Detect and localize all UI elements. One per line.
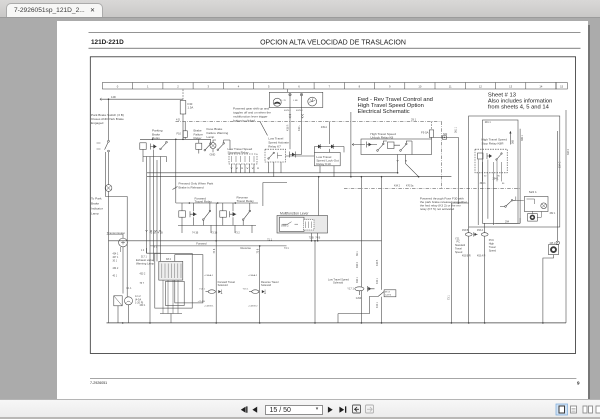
wire lamp down to ground bus bbox=[108, 191, 110, 323]
wire lockout box down bbox=[320, 166, 334, 177]
wire left bus down to switch bbox=[108, 99, 110, 140]
relay row2 bus bbox=[176, 202, 258, 204]
svg-text:30: 30 bbox=[484, 176, 487, 178]
wire step to pressure switch bbox=[338, 297, 375, 323]
svg-text:73 B: 73 B bbox=[309, 237, 314, 240]
svg-text:13: 13 bbox=[509, 85, 512, 89]
svg-text:relay (K7 5) not activated: relay (K7 5) not activated bbox=[420, 207, 455, 211]
svg-text:9: 9 bbox=[389, 85, 391, 89]
svg-text:440 1: 440 1 bbox=[376, 277, 379, 284]
svg-text:434 2: 434 2 bbox=[113, 268, 119, 270]
svg-text:Travel Relay: Travel Relay bbox=[195, 199, 213, 203]
svg-text:29 1: 29 1 bbox=[411, 117, 417, 121]
alternator circle bbox=[119, 238, 128, 247]
svg-text:F10: F10 bbox=[177, 132, 182, 136]
lever connector pins bbox=[306, 222, 312, 229]
svg-text:1.5A: 1.5A bbox=[188, 106, 194, 110]
svg-text:43 1B 74 1B: 43 1B 74 1B bbox=[150, 232, 164, 235]
wire x262.9 elbow bbox=[263, 183, 287, 207]
wire transmission label stub bbox=[122, 234, 124, 294]
svg-text:4 D: 4 D bbox=[176, 117, 180, 121]
svg-text:SW8 2: SW8 2 bbox=[281, 224, 289, 227]
svg-text:Relay K7: Relay K7 bbox=[268, 144, 281, 148]
svg-text:452 1: 452 1 bbox=[550, 213, 556, 215]
relay K10 parking brake: coil box bbox=[140, 143, 146, 150]
forward bus bbox=[109, 240, 382, 242]
wire F30 down to relay bus bbox=[182, 114, 184, 139]
relay K11 low-travel-stopping dashed box bbox=[229, 154, 257, 164]
connector chevrons on K11 pins bbox=[231, 168, 259, 169]
svg-text:445 1: 445 1 bbox=[550, 243, 556, 245]
svg-text:from sheets 4, 5 and 14: from sheets 4, 5 and 14 bbox=[488, 105, 550, 111]
svg-text:294 1: 294 1 bbox=[493, 178, 500, 181]
relay bus parking-brake row bbox=[140, 138, 187, 140]
svg-text:K1 1: K1 1 bbox=[127, 287, 133, 290]
svg-text:443 1: 443 1 bbox=[376, 301, 379, 308]
connector block grey bbox=[159, 261, 183, 280]
svg-text:10: 10 bbox=[418, 85, 421, 89]
solenoid Y21 oval bbox=[465, 233, 472, 236]
svg-text:1 4: 1 4 bbox=[141, 250, 145, 252]
relay K7 internals bbox=[268, 152, 282, 159]
coil K8 box bbox=[388, 142, 395, 149]
svg-text:6: 6 bbox=[298, 85, 300, 89]
svg-text:Stop Relay K8R: Stop Relay K8R bbox=[482, 141, 505, 145]
svg-text:453 A R: 453 A R bbox=[477, 255, 486, 258]
svg-text:294: 294 bbox=[505, 221, 510, 224]
svg-text:15: 15 bbox=[560, 85, 563, 89]
wire vertical x175.8 to lower relay bus bbox=[175, 139, 177, 203]
svg-text:Relay: Relay bbox=[194, 136, 202, 140]
svg-text:M 13: M 13 bbox=[385, 292, 391, 294]
relay K10 lockout box bbox=[314, 152, 340, 165]
contact right of lamp bbox=[213, 140, 230, 151]
wire x259.7 down to ground bbox=[259, 246, 261, 323]
S22 box with motor bbox=[524, 197, 548, 212]
bus A y172.8 bbox=[147, 172, 398, 174]
svg-text:S22 1: S22 1 bbox=[529, 190, 537, 194]
svg-text:OPCION ALTA VELOCIDAD DE TRASL: OPCION ALTA VELOCIDAD DE TRASLACION bbox=[260, 40, 406, 47]
connector circle X2-10 bbox=[556, 241, 559, 244]
lamp brake failure warning bbox=[210, 143, 216, 149]
motor symbol in S22 box bbox=[541, 203, 547, 209]
wire lever outputs 73B 74B bbox=[312, 233, 318, 241]
relay K8R pins bbox=[478, 160, 501, 173]
brake failure relay contact bbox=[196, 139, 202, 153]
svg-text:+C14 B: +C14 B bbox=[197, 301, 205, 303]
svg-text:334 C: 334 C bbox=[558, 161, 561, 168]
wire x381.5 down bbox=[381, 177, 383, 323]
alarm symbol bbox=[550, 246, 557, 253]
wire starter to ground bbox=[118, 287, 129, 323]
switch S park-brake bbox=[97, 140, 110, 152]
wire second left branch with elbow bbox=[106, 152, 128, 287]
fuse F30 dashed feed from ruler bbox=[182, 90, 184, 100]
svg-text:433 B: 433 B bbox=[376, 259, 379, 266]
diode V17 bbox=[367, 142, 373, 148]
wire K7 pins down bbox=[269, 162, 282, 177]
svg-text:L 4B: L 4B bbox=[293, 100, 298, 102]
wire Y21 feeds bbox=[469, 223, 485, 323]
svg-text:517 1: 517 1 bbox=[141, 257, 147, 259]
wire pointer gear-shift note bbox=[260, 122, 268, 136]
relay K11 pins down bbox=[232, 164, 255, 173]
wire x315 down to ground bbox=[314, 241, 316, 323]
wires under relay row2 bbox=[178, 217, 256, 225]
wire alarm to ground bbox=[543, 255, 554, 323]
wire x451.4 corner to ground bbox=[451, 203, 468, 323]
dash-dot boundary lower horizontal bbox=[344, 187, 520, 189]
wire switch to lamp bbox=[108, 152, 110, 185]
relay K7 activate dashed box bbox=[265, 149, 286, 162]
svg-text:365: 365 bbox=[512, 139, 515, 144]
wire inner box bottom link bbox=[495, 218, 520, 223]
svg-text:2: 2 bbox=[177, 85, 179, 89]
wire x458.4 down bbox=[457, 137, 459, 203]
wire gauge output left bbox=[289, 96, 291, 150]
solenoid reverse travel bbox=[249, 290, 266, 294]
switch S22 bbox=[500, 200, 516, 208]
wire buzzer link bbox=[532, 211, 541, 217]
svg-text:396 1: 396 1 bbox=[521, 134, 524, 141]
solenoid forward travel bbox=[206, 290, 223, 294]
wire columns into block bbox=[147, 248, 161, 261]
svg-text:Lamp: Lamp bbox=[91, 212, 99, 216]
wire lever feed from bus B bbox=[318, 177, 320, 216]
svg-text:407B 4: 407B 4 bbox=[284, 110, 291, 112]
lamp park-brake-indicator bbox=[105, 185, 112, 192]
svg-text:5: 5 bbox=[268, 85, 270, 89]
svg-text:Solenoid: Solenoid bbox=[333, 281, 344, 285]
svg-text:1: 1 bbox=[147, 85, 149, 89]
svg-text:121D-221D: 121D-221D bbox=[91, 39, 124, 46]
wire pin collector bbox=[160, 314, 182, 323]
connector block pins bbox=[162, 264, 181, 279]
relay K5 reverse: coil box bbox=[220, 211, 227, 217]
svg-text:Engaged: Engaged bbox=[91, 121, 104, 125]
svg-text:430 1: 430 1 bbox=[140, 305, 146, 307]
pressure switch SP2 bbox=[375, 290, 396, 297]
wire diagonal K8 to bus B bbox=[406, 164, 419, 177]
svg-text:73 1B: 73 1B bbox=[211, 232, 218, 235]
switch SW2 inside lever bbox=[283, 222, 299, 225]
wires relay outputs down to label row bbox=[182, 225, 252, 233]
wire F10 feed bbox=[184, 122, 186, 140]
wire lockout relay feeds bbox=[286, 126, 345, 156]
wires relay row2 verticals bbox=[182, 203, 250, 211]
contact K12 bbox=[187, 139, 211, 151]
svg-text:+C4A A 1: +C4A A 1 bbox=[204, 274, 214, 277]
wire cluster stub to ruler bbox=[287, 89, 289, 92]
svg-text:74 B: 74 B bbox=[315, 237, 320, 240]
svg-text:S62: S62 bbox=[443, 133, 448, 136]
wire Y17 connections bbox=[359, 177, 374, 323]
schematic frame bbox=[90, 57, 575, 354]
svg-text:F9 5A: F9 5A bbox=[421, 131, 429, 135]
svg-text:Y15 1: Y15 1 bbox=[243, 288, 249, 290]
svg-text:+C4A A 2: +C4A A 2 bbox=[248, 274, 258, 277]
svg-text:30 1: 30 1 bbox=[113, 261, 118, 263]
wire K8 pins to buses bbox=[398, 155, 406, 173]
nested ecu box overlap bbox=[175, 255, 203, 303]
wire 14D top-left horizontal bbox=[101, 98, 184, 100]
svg-text:Unlock Relay K8: Unlock Relay K8 bbox=[370, 136, 393, 140]
connector chevrons on columns bbox=[146, 230, 162, 232]
svg-text:3: 3 bbox=[207, 85, 209, 89]
svg-text:86: 86 bbox=[502, 183, 505, 185]
svg-text:460 2: 460 2 bbox=[356, 261, 359, 268]
wires K8R below box bbox=[478, 173, 493, 225]
svg-text:334 2: 334 2 bbox=[567, 148, 570, 155]
svg-text:432 L: 432 L bbox=[298, 124, 301, 131]
rotated wire labels bbox=[213, 124, 570, 308]
contact K8b bbox=[400, 143, 407, 151]
svg-text:Transmission: Transmission bbox=[107, 231, 126, 235]
svg-text:460 1: 460 1 bbox=[356, 276, 359, 283]
svg-text:470 5a: 470 5a bbox=[406, 184, 414, 187]
wire lamp to GND bbox=[212, 149, 214, 153]
wire F9 output to X2 bbox=[432, 137, 459, 139]
multifunction lever inner box bbox=[280, 217, 305, 231]
diode V16 bbox=[318, 144, 324, 149]
diode V13 bbox=[290, 152, 296, 158]
buzzer symbol bbox=[530, 215, 535, 220]
wire x216.2 down to ground bbox=[215, 203, 217, 323]
svg-text:453 B R: 453 B R bbox=[462, 255, 471, 258]
svg-text:36 1: 36 1 bbox=[356, 251, 359, 256]
wire gauge output right bbox=[301, 96, 303, 152]
wire x520.1 bbox=[519, 129, 521, 224]
svg-text:9: 9 bbox=[577, 381, 580, 386]
wire x350.9 vertical bbox=[350, 112, 352, 177]
svg-text:453 A: 453 A bbox=[477, 229, 484, 232]
svg-text:Brake is Released: Brake is Released bbox=[179, 185, 204, 189]
diode V10 bbox=[151, 144, 157, 150]
lever connector dashed box bbox=[304, 220, 315, 231]
svg-text:Solenoid: Solenoid bbox=[218, 283, 229, 287]
ground bus bbox=[107, 322, 567, 324]
contact K3 bbox=[203, 210, 211, 220]
fuse F10 body bbox=[183, 131, 187, 138]
svg-text:Forward: Forward bbox=[196, 242, 207, 246]
relay K8R stop dashed box bbox=[475, 149, 507, 173]
svg-text:Lamp: Lamp bbox=[207, 135, 215, 139]
svg-text:Travel Relay: Travel Relay bbox=[237, 199, 255, 203]
svg-text:Warning Lamp: Warning Lamp bbox=[136, 262, 155, 266]
svg-text:+C4B B 2: +C4B B 2 bbox=[248, 306, 258, 308]
svg-text:75 7: 75 7 bbox=[140, 283, 145, 285]
svg-text:Relay K10: Relay K10 bbox=[316, 162, 331, 166]
svg-text:Multifunction Lever: Multifunction Lever bbox=[280, 211, 309, 215]
contact K5 bbox=[242, 210, 250, 220]
right subsystem box bbox=[469, 116, 560, 227]
svg-text:Reverse: Reverse bbox=[241, 246, 252, 250]
wire x329.5 from dashline bbox=[329, 122, 331, 127]
svg-text:74 1: 74 1 bbox=[284, 247, 289, 250]
svg-text:Electrical Schematic: Electrical Schematic bbox=[358, 109, 410, 115]
fuse F9 body bbox=[429, 130, 433, 138]
svg-text:14: 14 bbox=[539, 85, 542, 89]
relay K8 unlock box bbox=[361, 139, 432, 155]
svg-text:7: 7 bbox=[328, 85, 330, 89]
dash-dot boundary horizontal 4D bbox=[176, 121, 442, 123]
svg-text:Relay: Relay bbox=[152, 136, 160, 140]
wire far-right bus x566 bbox=[565, 110, 567, 323]
svg-text:Indicator: Indicator bbox=[91, 207, 103, 211]
wire pointer pressed-only note bbox=[173, 187, 178, 190]
svg-text:0: 0 bbox=[117, 85, 119, 89]
starter motor circle bbox=[125, 297, 133, 305]
svg-text:8: 8 bbox=[359, 85, 361, 89]
svg-text:407 1: 407 1 bbox=[113, 257, 119, 259]
svg-text:GND: GND bbox=[210, 153, 216, 157]
svg-text:433 2: 433 2 bbox=[140, 273, 146, 275]
svg-text:Fwd - Rev Travel Control and: Fwd - Rev Travel Control and bbox=[358, 97, 433, 103]
alarm device box bbox=[549, 245, 559, 255]
relay K3 forward: coil box bbox=[179, 211, 186, 217]
wire arrow x510.4 bbox=[509, 131, 511, 145]
S22 box internals bbox=[516, 197, 535, 205]
svg-text:73 1: 73 1 bbox=[448, 295, 451, 300]
svg-text:73 8: 73 8 bbox=[257, 248, 260, 253]
svg-text:434 2: 434 2 bbox=[394, 184, 401, 187]
svg-text:74 1B: 74 1B bbox=[192, 232, 199, 235]
relay K11 internals bbox=[232, 156, 255, 162]
diode V25 bbox=[331, 144, 337, 149]
svg-text:T1 1: T1 1 bbox=[267, 238, 272, 241]
svg-text:K8 2: K8 2 bbox=[166, 258, 172, 261]
fuse F9 dashed feed bbox=[431, 122, 433, 130]
svg-text:L 70: L 70 bbox=[282, 100, 287, 102]
svg-text:Speed: Speed bbox=[455, 251, 463, 254]
svg-text:73 2: 73 2 bbox=[235, 232, 240, 235]
svg-text:439 A: 439 A bbox=[321, 126, 328, 129]
wire x123 alternator labels column bbox=[120, 247, 122, 252]
K8R pin stubs bbox=[483, 173, 502, 182]
svg-text:C4 F4: C4 F4 bbox=[385, 294, 392, 296]
wire V13 join bbox=[296, 152, 302, 155]
svg-text:To Park: To Park bbox=[91, 197, 102, 201]
svg-text:74 8: 74 8 bbox=[213, 248, 216, 253]
svg-text:Y14 1: Y14 1 bbox=[199, 288, 205, 290]
connector X2 bbox=[442, 136, 446, 139]
svg-text:434 1: 434 1 bbox=[113, 254, 119, 256]
wire column cluster middle bbox=[147, 157, 161, 323]
svg-text:GND: GND bbox=[356, 296, 362, 300]
svg-text:361 1: 361 1 bbox=[455, 126, 458, 133]
dash-dot boundary vertical bbox=[441, 122, 443, 189]
svg-text:Y17 1: Y17 1 bbox=[347, 288, 354, 291]
svg-text:Solenoid: Solenoid bbox=[261, 283, 272, 287]
svg-text:14D: 14D bbox=[111, 95, 116, 99]
svg-text:4: 4 bbox=[238, 85, 240, 89]
contact K10 bbox=[160, 141, 168, 149]
ground bus junctions bbox=[122, 322, 544, 324]
connector block pin stubs bbox=[163, 280, 178, 313]
svg-text:394 1: 394 1 bbox=[480, 182, 487, 185]
svg-text:+C4B B 1: +C4B B 1 bbox=[204, 306, 214, 308]
svg-text:11: 11 bbox=[449, 85, 452, 89]
wires under parking relay bbox=[143, 149, 167, 162]
svg-text:291 1: 291 1 bbox=[485, 121, 492, 124]
svg-text:High Travel Speed Option: High Travel Speed Option bbox=[358, 103, 424, 109]
node junction at x108.5 bbox=[108, 98, 110, 100]
contact K8a bbox=[377, 143, 384, 151]
svg-text:Speed: Speed bbox=[489, 249, 497, 252]
relay K8R internals bbox=[478, 153, 503, 160]
nested ecu box outer bbox=[155, 253, 192, 308]
starter relay box bbox=[114, 296, 122, 306]
lower ecu box bbox=[166, 281, 185, 305]
multifunction lever outer box bbox=[277, 216, 328, 234]
instrument cluster box bbox=[269, 92, 323, 107]
diode V20 bbox=[474, 232, 478, 236]
bus B y176.7 bbox=[147, 176, 451, 178]
svg-text:button is clicked: button is clicked bbox=[233, 119, 255, 123]
buzzer box bbox=[528, 214, 538, 222]
connector chevrons on gauge wires bbox=[289, 114, 304, 118]
svg-text:7-2926051: 7-2926051 bbox=[90, 381, 107, 385]
svg-text:Stopping Relay: Stopping Relay bbox=[228, 151, 249, 155]
connector pin L4B bbox=[300, 94, 302, 96]
solenoid PCC oval bbox=[481, 233, 488, 236]
reverse bus bbox=[150, 245, 287, 247]
svg-text:12: 12 bbox=[479, 85, 482, 89]
diode V14 bbox=[190, 211, 197, 217]
fuse F30 body bbox=[180, 101, 186, 115]
gauge low-speed symbol bbox=[273, 98, 281, 106]
wire K8 internals bbox=[372, 141, 412, 155]
svg-text:Brake: Brake bbox=[91, 202, 99, 206]
svg-text:433 R: 433 R bbox=[287, 124, 290, 131]
svg-text:40 1: 40 1 bbox=[113, 276, 118, 278]
right inner box bbox=[483, 120, 519, 223]
solenoid Y17 oval bbox=[355, 287, 364, 291]
connector pin L70 bbox=[289, 94, 291, 96]
svg-text:453 B: 453 B bbox=[462, 229, 469, 232]
gauge speedometer symbol bbox=[308, 97, 317, 106]
wire K8 feed connector bbox=[352, 143, 365, 146]
diode V18 bbox=[368, 286, 372, 292]
svg-text:407B 4: 407B 4 bbox=[296, 110, 303, 112]
wire right bus x557.7 bbox=[557, 131, 559, 241]
diode V15 bbox=[230, 211, 237, 217]
svg-text:Low Travel Speed: Low Travel Speed bbox=[328, 277, 349, 281]
